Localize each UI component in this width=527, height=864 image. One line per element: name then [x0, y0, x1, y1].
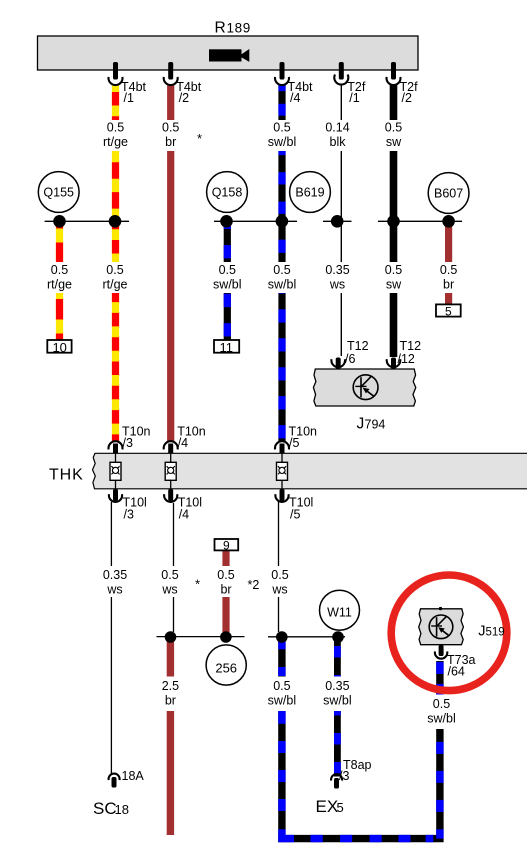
THK pass-through contact col 1	[110, 453, 121, 489]
svg-text:5: 5	[337, 800, 344, 815]
JUNCTION LINES, DOTS, NODE CIRCLES, TERMINAL BOXES	[38, 172, 469, 686]
wire link line at lower brown junction	[157, 636, 245, 638]
value label 0.5 br (B607 branch)	[435, 262, 462, 293]
svg-text:*2: *2	[248, 578, 260, 592]
label J519	[478, 623, 504, 639]
value label 0.5 sw (mid)	[380, 262, 407, 293]
connector pin T10n/3	[109, 425, 151, 454]
svg-text:/64: /64	[448, 665, 465, 679]
svg-text:0.5: 0.5	[433, 697, 450, 711]
value label 0.5 br (terminal 9 wire)	[213, 566, 240, 597]
component J519 box (onboard supply control unit, torn edges)	[419, 609, 464, 645]
label J794	[357, 416, 386, 433]
connector pin T2f/1	[334, 62, 366, 105]
connector pin T10l/5	[275, 489, 313, 522]
terminal box 10	[47, 340, 71, 355]
svg-text:0.5: 0.5	[271, 568, 288, 582]
label R189	[215, 20, 251, 37]
wire 0.5 sw/bl R189 T4bt/4 down to THK T10n/5	[278, 85, 285, 441]
wire link line at Q155 junction	[45, 220, 129, 222]
svg-text:R: R	[215, 20, 226, 37]
wire end connector 18A at SC18	[109, 769, 145, 788]
svg-text:519: 519	[486, 626, 505, 638]
value label 0.5 ws (below THK col 3)	[267, 566, 294, 597]
svg-text:/3: /3	[124, 508, 134, 522]
svg-text:10: 10	[52, 340, 66, 355]
THK pass-through contact col 2	[165, 453, 176, 489]
wire 0.35 sw/bl from W11 junction down to EX T8ap/3	[334, 641, 341, 777]
connector pin T4bt/2	[164, 62, 202, 105]
connector pin T4bt/4	[275, 62, 313, 105]
wire 0.35 ws below THK T10l/3 down to SC18 18A	[110, 502, 112, 775]
svg-text:rt/ge: rt/ge	[102, 277, 127, 291]
node circle B619	[290, 172, 331, 213]
svg-text:sw: sw	[386, 277, 402, 291]
svg-text:0.35: 0.35	[103, 568, 127, 582]
svg-text:/12: /12	[398, 352, 415, 366]
svg-text:*: *	[197, 131, 202, 146]
svg-text:/2: /2	[179, 91, 189, 105]
svg-text:0.14: 0.14	[325, 121, 349, 135]
wire 0.5 br from terminal 9 to junction node	[222, 551, 229, 633]
value label 0.5 sw/bl (bottom left)	[266, 677, 298, 712]
junction dot Q158	[220, 215, 233, 228]
connector pin T73a/64	[435, 645, 476, 679]
svg-text:/5: /5	[289, 436, 299, 450]
value label 0.35 sw/bl (W11 wire)	[321, 677, 354, 712]
terminal box 11	[214, 340, 239, 355]
value label 0.5 sw/bl (main run mid)	[267, 262, 297, 293]
svg-text:Q158: Q158	[212, 186, 243, 200]
value label 0.35 ws (mid)	[324, 262, 351, 293]
svg-text:sw: sw	[386, 135, 402, 149]
connector pin T10n/5	[275, 425, 317, 454]
svg-text:ws: ws	[271, 583, 287, 597]
svg-text:J: J	[478, 623, 485, 639]
wire 0.5 br from B607 junction to terminal 5	[445, 224, 452, 305]
junction dot 2.5 br	[165, 631, 177, 643]
wire link line at B619 junction	[323, 220, 352, 222]
svg-text:br: br	[443, 277, 454, 291]
wire 0.5 ws below THK T10l/5 down to junction	[278, 502, 280, 632]
svg-text:br: br	[220, 583, 231, 597]
svg-text:/2: /2	[402, 91, 412, 105]
svg-text:br: br	[165, 135, 176, 149]
svg-text:18A: 18A	[122, 769, 145, 783]
svg-text:0.5: 0.5	[273, 263, 290, 277]
svg-text:/5: /5	[290, 508, 300, 522]
CONNECTOR SYMBOLS	[109, 62, 476, 789]
svg-text:ws: ws	[106, 583, 122, 597]
svg-text:br: br	[165, 693, 176, 707]
wire 0.5 sw/bl from Q158 junction to terminal 11	[224, 224, 231, 340]
svg-text:/4: /4	[179, 508, 189, 522]
value label 0.5 sw/bl (Q158 branch)	[212, 262, 242, 293]
wire 0.5 sw R189 T2f/2 down to J794 T12/12	[390, 85, 398, 357]
wire 0.5 br R189 T4bt/2 down to THK T10n/4	[167, 85, 174, 441]
svg-text:J: J	[357, 416, 365, 433]
svg-text:794: 794	[365, 418, 386, 432]
node circle W11	[320, 590, 360, 630]
terminal box 5	[436, 304, 461, 318]
value label 0.5 ws (below THK col 2)	[157, 566, 184, 597]
J519 internal direction symbol	[429, 615, 453, 639]
svg-text:189: 189	[227, 21, 251, 36]
svg-text:18: 18	[115, 802, 129, 817]
svg-text:sw/bl: sw/bl	[323, 693, 351, 707]
svg-text:0.5: 0.5	[106, 263, 123, 277]
wire link line at lower sw/bl junction	[268, 636, 345, 638]
junction dot rt/ge main	[109, 215, 122, 228]
value label 0.5 rt/ge (T4bt/1 wire)	[102, 120, 129, 151]
node circle Q155	[38, 172, 79, 213]
svg-text:sw/bl: sw/bl	[268, 277, 296, 291]
svg-text:0.35: 0.35	[325, 263, 349, 277]
junction dot sw/bl lower	[276, 631, 288, 643]
svg-text:0.5: 0.5	[273, 679, 290, 693]
svg-text:5: 5	[445, 305, 452, 319]
svg-text:T12: T12	[347, 339, 369, 353]
junction dot W11	[332, 631, 344, 643]
svg-text:/4: /4	[178, 436, 188, 450]
svg-text:0.5: 0.5	[217, 568, 234, 582]
WIRE VALUE LABELS (white backgrounds create wire gaps)	[46, 120, 462, 729]
wire 0.14 blk R189 T2f/1 down to J794 T12/6	[340, 84, 342, 356]
svg-text:2.5: 2.5	[162, 679, 179, 693]
svg-text:sw/bl: sw/bl	[268, 693, 296, 707]
connector pin T12/6	[331, 339, 368, 369]
value label 0.14 blk (T2f/1 wire)	[324, 120, 351, 151]
junction dot terminal-9 wire	[220, 631, 232, 643]
svg-text:0.35: 0.35	[325, 679, 349, 693]
wire link line at Q158 junction	[214, 220, 297, 222]
svg-text:rt/ge: rt/ge	[47, 277, 72, 291]
svg-text:W11: W11	[327, 605, 352, 619]
svg-text:rt/ge: rt/ge	[103, 135, 128, 149]
svg-text:0.5: 0.5	[219, 263, 236, 277]
svg-text:B607: B607	[434, 187, 463, 201]
connector pin T8ap/3	[331, 758, 371, 789]
connector pin T4bt/1	[109, 62, 147, 105]
label EX5	[316, 797, 344, 816]
label SC18 (fuse holder)	[93, 799, 129, 818]
svg-text:sw/bl: sw/bl	[268, 135, 296, 149]
J794 internal direction symbol	[353, 375, 378, 400]
svg-text:11: 11	[220, 340, 234, 355]
svg-text:0.5: 0.5	[107, 121, 124, 135]
svg-text:THK: THK	[49, 467, 84, 484]
wire 0.5 rt/ge from Q155 junction to terminal 10	[56, 224, 63, 340]
component R189 box (rear view camera)	[38, 36, 419, 70]
svg-text:Q155: Q155	[43, 186, 74, 200]
terminal box 9	[215, 539, 239, 553]
svg-text:/3: /3	[123, 436, 133, 450]
value label 0.5 sw/bl (J519 wire)	[425, 695, 458, 730]
wire 0.5 sw/bl from junction down, across bottom and up to J519 T73a/64	[282, 641, 440, 839]
svg-text:SC: SC	[93, 799, 117, 818]
connector pin T10l/3	[109, 489, 147, 522]
J519 box top pip	[439, 607, 442, 610]
value label 0.5 sw/bl (T4bt/4 wire)	[267, 120, 297, 151]
connector pin T10l/4	[164, 489, 202, 522]
svg-text:*: *	[195, 577, 200, 592]
svg-text:ws: ws	[329, 277, 345, 291]
node circle B607	[428, 173, 469, 214]
value label 2.5 br (bottom)	[157, 677, 184, 712]
svg-text:EX: EX	[316, 797, 339, 816]
svg-text:0.5: 0.5	[162, 121, 179, 135]
svg-text:sw/bl: sw/bl	[427, 712, 455, 726]
svg-text:sw/bl: sw/bl	[213, 277, 241, 291]
svg-text:0.5: 0.5	[161, 568, 178, 582]
svg-text:0.5: 0.5	[440, 263, 457, 277]
value label 0.5 sw (T2f/2 wire)	[380, 120, 407, 151]
value label 0.5 rt/ge (main run)	[102, 262, 129, 293]
R189 internal camera symbol	[209, 49, 249, 62]
svg-text:256: 256	[215, 660, 237, 675]
svg-text:0.5: 0.5	[385, 121, 402, 135]
value label 0.35 ws (below THK col 1)	[101, 566, 129, 597]
junction dot B607	[442, 215, 455, 228]
svg-text:9: 9	[223, 539, 230, 553]
J519 highlight ring	[391, 575, 507, 691]
junction dot Q155	[53, 215, 66, 228]
svg-text:/6: /6	[345, 352, 355, 366]
svg-text:/1: /1	[349, 91, 359, 105]
connector pin T10n/4	[164, 425, 206, 454]
wire link line at B607 junction	[378, 220, 462, 222]
wire 0.5 ws below THK T10l/4 down to junction	[173, 503, 175, 632]
component J794 box (control unit, torn edges)	[313, 369, 415, 406]
svg-text:B619: B619	[295, 186, 324, 200]
value label 0.5 rt/ge (Q155 branch)	[46, 262, 73, 293]
wire 0.5 rt/ge R189 T4bt/1 down to THK T10n/3	[112, 85, 119, 441]
connector pin T2f/2	[387, 62, 419, 105]
junction dot sw wire	[387, 215, 400, 228]
svg-text:T12: T12	[400, 339, 422, 353]
node circle 256	[206, 645, 246, 685]
node circle Q158	[207, 172, 248, 213]
junction dot sw/bl main	[276, 215, 289, 228]
junction dot blk wire	[331, 215, 344, 228]
svg-text:0.5: 0.5	[273, 121, 290, 135]
svg-text:ws: ws	[161, 583, 177, 597]
svg-text:0.5: 0.5	[51, 263, 68, 277]
wire 2.5 br from junction down to bottom	[167, 641, 174, 835]
svg-text:/3: /3	[339, 769, 349, 783]
svg-text:/4: /4	[290, 91, 300, 105]
svg-text:/1: /1	[124, 91, 134, 105]
THK pass-through contact col 3	[277, 453, 288, 489]
connector pin T12/12	[387, 339, 421, 369]
svg-text:blk: blk	[330, 135, 347, 149]
THK bar (wiring harness rail)	[93, 453, 527, 489]
svg-text:0.5: 0.5	[385, 263, 402, 277]
value label 0.5 br (T4bt/2 wire)	[157, 120, 184, 151]
